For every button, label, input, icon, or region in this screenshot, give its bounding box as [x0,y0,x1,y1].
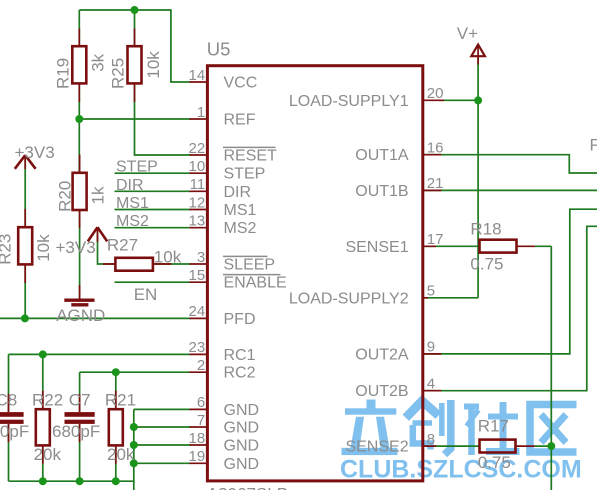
svg-text:RC2: RC2 [224,365,256,382]
REDPARTS [9,29,535,464]
WATERMARK [340,400,582,484]
svg-text:+3V3: +3V3 [15,143,55,162]
watermark char QU (区) [530,405,577,453]
svg-text:0.75: 0.75 [478,453,511,472]
resistor R20 pin stubs [79,155,81,229]
junction GND pin19 [130,459,138,467]
overline ENABLE [223,274,281,276]
svg-text:MS1: MS1 [224,202,257,219]
wire R18 right to sense bus [535,245,552,247]
wire R22 top branch [42,354,44,409]
watermark char LI (立) [342,400,398,456]
svg-text:2: 2 [197,357,205,374]
svg-text:F: F [590,136,597,155]
ground AGND symbol [64,285,94,305]
svg-text:SENSE1: SENSE1 [345,239,408,256]
resistor R19 body [72,46,86,83]
resistor R23 pin stubs [24,209,26,283]
pin names right [289,93,409,456]
svg-text:R17: R17 [478,417,509,436]
wire MS2 net [115,227,191,229]
resistor R23 body [18,227,32,264]
wire R23 bottom to PFD net [24,265,26,319]
wire GND pin18 [134,444,191,446]
supply V+ symbol [471,45,485,65]
svg-text:C8: C8 [0,390,17,409]
svg-text:DIR: DIR [116,177,144,194]
wire top rail R19/R25 to pin14 [79,10,190,82]
wire R21 top branch [115,372,117,409]
svg-text:13: 13 [189,213,206,230]
svg-text:OUT1A: OUT1A [355,147,409,164]
svg-text:GND: GND [224,456,260,473]
svg-text:DIR: DIR [224,184,252,201]
svg-text:C7: C7 [69,390,91,409]
wire pin5 LOAD-SUPPLY2 [424,297,478,299]
resistor R25 body [128,46,142,83]
svg-text:3k: 3k [89,53,108,71]
svg-text:MS2: MS2 [224,220,257,237]
wire GND pin7 [134,426,191,428]
junction bottom rail C7 [76,477,84,485]
svg-text:R27: R27 [107,236,138,255]
svg-text:OUT1B: OUT1B [355,183,408,200]
svg-text:VCC: VCC [224,75,258,92]
svg-text:6: 6 [197,394,205,411]
resistor R21 body [109,409,123,445]
wire GND pin6 [134,408,191,410]
svg-text:GND: GND [224,420,260,437]
wire C7 bottom to bottom rail [79,424,81,481]
wire RC1 down to C8 top [8,354,10,412]
svg-text:+3V3: +3V3 [56,238,96,257]
supply +3V3 symbol 1 [15,155,36,169]
wire RC1 net to pin23 [9,353,191,355]
wire +3V3 arrow2 to R27 left [98,228,116,264]
svg-text:19: 19 [189,448,206,465]
supply +3V3 symbol 2 [88,227,107,242]
wire DIR net [115,190,191,192]
wire pin8 SENSE2 to R17 left [424,445,480,447]
svg-text:1k: 1k [89,186,108,204]
svg-text:REF: REF [224,112,256,129]
wire EN net to pin15 ENABLE [115,281,191,283]
svg-text:MS1: MS1 [116,195,149,212]
capacitor C8 pin stubs [8,394,10,442]
wire OUT1B [424,189,597,191]
wire RC2 down to C7 top [79,372,81,412]
svg-text:3: 3 [197,249,205,266]
pin numbers left [189,67,206,465]
pin stubs left side of U5 [190,82,207,463]
watermark char SHE (社) [464,402,520,455]
svg-text:MS2: MS2 [116,213,149,230]
resistor R19 pin stubs [78,29,80,103]
resistor R27 pin stubs [103,263,171,265]
resistor R17 right pin stub [516,445,535,447]
svg-text:21: 21 [427,175,444,192]
svg-text:OUT2A: OUT2A [355,346,409,363]
resistor R22 body [36,409,50,445]
svg-text:R23: R23 [0,234,15,265]
wire STEP net [115,172,191,174]
svg-text:12: 12 [189,194,206,211]
wire OUT1A [424,155,597,173]
wire V+ vertical to R18 and pin5 branch [477,101,479,298]
svg-text:4: 4 [427,376,435,393]
svg-text:16: 16 [427,140,444,157]
svg-text:20k: 20k [107,445,135,464]
svg-text:9: 9 [427,339,435,356]
svg-text:LOAD-SUPPLY2: LOAD-SUPPLY2 [289,290,409,307]
junction RC1 / R22 [39,350,47,358]
junction bottom rail R22 [39,477,47,485]
svg-text:10k: 10k [154,248,182,267]
op-amp/IC U5 box outline [207,66,422,481]
junction GND pin18 [130,441,138,449]
svg-text:R18: R18 [470,219,501,238]
svg-text:GND: GND [224,402,260,419]
junction GND pin7 [130,423,138,431]
svg-text:14: 14 [189,67,206,84]
wire REF node to R20 top [78,119,80,173]
svg-text:7: 7 [197,412,205,429]
svg-text:0.75: 0.75 [470,255,503,274]
svg-text:SENSE2: SENSE2 [345,439,408,456]
wire PFD net to pin24 [0,317,191,319]
wire V+ node to pin20 [440,99,479,101]
svg-text:STEP: STEP [116,159,158,176]
resistor R18 body [480,240,517,253]
junction REF node [75,115,83,123]
svg-text:OUT2B: OUT2B [355,383,408,400]
svg-text:R20: R20 [55,181,74,212]
wire pin17 SENSE1 to R18 left [424,245,480,247]
svg-text:LOAD-SUPPLY1: LOAD-SUPPLY1 [289,93,409,110]
resistor R18 right pin stub [517,245,535,247]
wire GND pin19 [134,462,191,464]
junction top rail / R25 [131,6,139,14]
svg-text:SLEEP: SLEEP [224,257,276,274]
svg-text:ENABLE: ENABLE [224,275,287,292]
wire R17 right to sense bus [535,445,552,447]
svg-text:CLUB.SZLCSC.COM: CLUB.SZLCSC.COM [340,456,582,484]
svg-text:24: 24 [189,303,206,320]
junction PFD / R23 [21,314,29,322]
wire R20 bottom to AGND [79,210,81,299]
watermark char CHUANG (创) [406,400,451,455]
wire V+ shaft down to node [477,56,479,101]
svg-text:22: 22 [189,140,206,157]
svg-text:17: 17 [427,231,444,248]
svg-text:RC1: RC1 [224,347,256,364]
wire R22 bottom branch [42,445,44,481]
svg-text:10k: 10k [144,51,163,79]
svg-text:1: 1 [197,104,205,121]
pin numbers right [427,85,444,448]
wire R25 bottom to pin22 RESET [135,84,191,155]
wire sense bus vertical [550,246,552,490]
wire C8 bottom to bottom rail [8,424,10,481]
wire R25 top pin [134,10,136,46]
svg-text:PFD: PFD [224,311,256,328]
junction RC2 / R21 [112,368,120,376]
resistor R25 pin stubs [134,29,136,103]
wire R21 bottom branch [115,445,117,481]
pin stubs right side of U5 [423,100,444,446]
svg-text:680pF: 680pF [0,422,29,441]
svg-text:R21: R21 [105,390,136,409]
svg-text:R25: R25 [109,58,128,89]
svg-text:18: 18 [189,430,206,447]
capacitor C8 plates [0,412,24,424]
wire R19 bottom to REF node [78,84,80,119]
svg-text:A3967SLB: A3967SLB [207,484,288,490]
wire OUT2A [424,209,597,354]
svg-text:10: 10 [189,158,206,175]
svg-text:STEP: STEP [224,166,266,183]
overline RESET [223,146,276,148]
wire REF node to pin1 [79,118,190,120]
svg-text:11: 11 [190,176,206,193]
wire +3V3 arrow1 to R23 top [24,156,26,227]
svg-text:20k: 20k [34,445,62,464]
wire MS1 net [115,209,191,211]
resistor R21 pin stubs [115,391,117,464]
resistor R27 body [115,258,152,271]
svg-text:EN: EN [134,285,158,304]
junction sense bus / R17 [547,442,555,450]
svg-text:R22: R22 [32,390,63,409]
overline SLEEP [223,255,268,257]
svg-text:V+: V+ [457,24,478,43]
resistor R20 body [73,173,87,210]
resistor R17 body [480,440,516,453]
wire RC2 net to pin2 [80,371,191,373]
capacitor C7 pin stubs [79,394,81,442]
svg-text:AGND: AGND [56,306,105,325]
svg-text:U5: U5 [207,38,231,59]
svg-text:20: 20 [427,85,444,102]
wire GND vertical bus [133,409,135,490]
resistor R22 pin stubs [42,391,44,464]
wire OUT2B [424,226,597,390]
wire R27 right to pin3 SLEEP [153,263,191,265]
BODIES [0,46,516,481]
wire bottom rail [9,480,134,482]
svg-text:GND: GND [224,438,260,455]
svg-text:RESET: RESET [224,148,278,165]
wire R19 top pin [78,10,80,46]
capacitor C7 plates [65,412,95,424]
svg-text:10k: 10k [34,234,53,262]
svg-text:5: 5 [427,283,435,300]
svg-text:23: 23 [189,339,206,356]
junction V+ / pin20 [474,96,482,104]
svg-text:8: 8 [427,431,435,448]
svg-text:15: 15 [189,267,206,284]
svg-text:R19: R19 [53,58,72,89]
svg-text:680pF: 680pF [52,422,100,441]
junction bottom rail R21 [112,477,120,485]
